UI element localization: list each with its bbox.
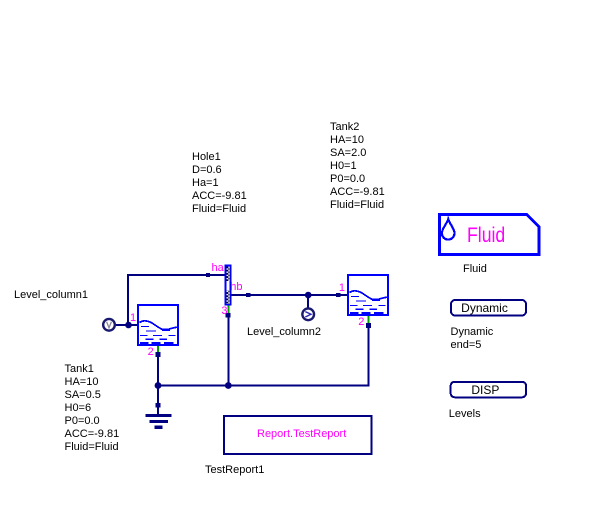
component TestReport1 box (224, 416, 372, 454)
label Dynamic end=5 (451, 326, 494, 352)
pin stub Hole1 port 3 (green) (227, 306, 229, 314)
sensor V1 letter v (107, 322, 112, 328)
text Fluid record name (467, 225, 505, 246)
label TestReport1 (205, 464, 264, 477)
pin label 1 tank2 (339, 283, 345, 294)
connector marker below hole (226, 313, 231, 317)
tank Tank2 water dashes (350, 297, 386, 314)
wire sensor1 to tank1 port (113, 324, 137, 326)
label Levels (449, 408, 481, 421)
bottom bus wire (158, 385, 368, 387)
pin label ha (212, 263, 224, 274)
text block Tank2 parameters (330, 121, 385, 212)
tank Tank1 water surface wave (140, 321, 178, 330)
text Dynamic button caption (447, 300, 522, 316)
pin label 2 tank2 (358, 317, 364, 328)
pin label hb (230, 282, 242, 293)
wire Hole1 port hb to Tank2 port 1 (232, 294, 348, 296)
record Fluid droplet icon (442, 219, 455, 240)
sensor V2 circle (level sensor >) (302, 308, 314, 320)
orifice Hole1 body (226, 266, 231, 305)
text block Hole1 parameters (192, 151, 247, 216)
ground G1 bar3 (155, 426, 163, 429)
connector marker above ground (156, 403, 161, 408)
label Fluid (463, 263, 487, 276)
ground G1 bar2 (150, 420, 169, 423)
wire tank1 port 2 down to ground (157, 354, 159, 414)
wire junction1 up and right to Hole1 port ha (128, 275, 225, 325)
junction node at sensor1 (125, 322, 132, 329)
orifice Hole1 checker bottom (227, 291, 230, 305)
pin label 3 (221, 306, 227, 317)
connector marker near tank2 port 1 (336, 293, 340, 297)
connector marker near hb (246, 293, 250, 297)
junction node hole/bus (225, 382, 232, 389)
pin stub Tank1 port 2 (green) (157, 346, 159, 354)
pin stub Tank2 port 2 (green) (367, 316, 369, 324)
label Level_column2 (247, 326, 321, 339)
sensor V1 circle (level sensor v) (103, 319, 115, 331)
tank Tank2 water surface wave (350, 291, 388, 300)
wire hole port 3 down to bottom bus (227, 315, 229, 386)
junction node tank1/bus (155, 382, 162, 389)
connector marker below tank1 (155, 352, 160, 357)
text block Tank1 parameters (65, 363, 120, 454)
junction node above sensor2 (305, 292, 312, 299)
orifice Hole1 checker top (227, 267, 230, 282)
component DISP button (451, 382, 526, 398)
component Dynamic button (451, 300, 526, 316)
connector marker below tank2 (366, 323, 371, 328)
wire tank2 port 2 down to bus corner (367, 324, 369, 387)
pin label 2 tank1 (148, 347, 154, 358)
text Report.TestReport (257, 429, 346, 440)
label Level_column1 (14, 289, 88, 302)
tank Tank2 body (348, 275, 388, 315)
sensor V2 symbol (305, 312, 311, 317)
text DISP button caption (448, 382, 524, 398)
wire junction to sensor2 (307, 295, 309, 308)
tank Tank1 body (138, 305, 178, 345)
tank Tank1 water dashes (140, 327, 176, 344)
record Fluid package shape (440, 215, 539, 255)
pin label 1 tank1 (130, 313, 136, 324)
ground G1 bar1 (146, 414, 172, 417)
connector marker on wire to ha (206, 273, 210, 277)
